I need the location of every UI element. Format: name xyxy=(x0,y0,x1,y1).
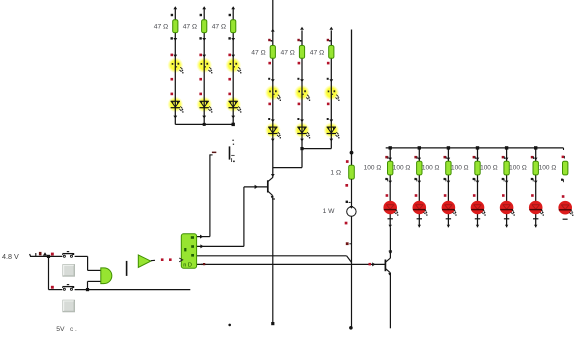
wire U1 pin1 (Q output 1) xyxy=(197,236,210,238)
current mark below lamp xyxy=(345,222,348,225)
wire U1 pin1 up to capacitor C1 xyxy=(210,154,213,236)
wire column 5 vertical xyxy=(506,148,508,227)
current mark above LED D14 xyxy=(415,194,418,197)
wire Q2 emitter down xyxy=(389,273,391,329)
current mark above LED D18 xyxy=(531,194,534,197)
LED D15 (red, lit) xyxy=(442,201,456,215)
current arrow on Q1 collector wire xyxy=(271,174,275,177)
current mark below R7 xyxy=(268,62,271,65)
wire branch 2 vertical xyxy=(203,7,205,124)
current arrow top of branch 9 xyxy=(329,27,333,30)
junction node column 2 on bus xyxy=(418,146,421,149)
svg-text:47 Ω: 47 Ω xyxy=(310,49,324,56)
current arrow at top of branch 3 xyxy=(231,6,235,9)
LED D11 diode symbol xyxy=(297,127,306,133)
gate U2 (AND) xyxy=(101,268,112,284)
current mark below top, branch 1 xyxy=(171,14,173,16)
label R1 value 47 ohm xyxy=(154,24,168,31)
junction node battery split xyxy=(47,255,50,258)
LED D17 emission arrows xyxy=(511,210,515,216)
clock marker vertical bar xyxy=(126,261,128,276)
current mark lower on lamp wire xyxy=(346,242,351,245)
IC U1 (counter) body xyxy=(181,234,196,268)
wire bottom rail riser to gate U2 input B xyxy=(88,281,101,289)
label R15 value 100 ohm xyxy=(539,165,557,172)
LED D15 emission arrows xyxy=(453,210,457,216)
wire column 2 vertical xyxy=(418,148,420,227)
wire Q1 base xyxy=(244,186,267,188)
LED D8 glow (yellow, lit) xyxy=(294,85,310,101)
current mark above LED D17 xyxy=(502,194,505,197)
LED D12 emission arrows xyxy=(336,132,340,138)
current mark below R14 xyxy=(531,178,538,184)
LED D6 emission arrows xyxy=(237,106,241,112)
svg-text:47 Ω: 47 Ω xyxy=(251,49,265,56)
transistor Q2 emitter diagonal with arrow xyxy=(386,269,392,276)
wire SW1 to gate U2 input A xyxy=(75,256,101,270)
current arrow at top of branch 2 xyxy=(202,6,206,9)
wire column 6 vertical xyxy=(535,148,537,227)
LED D5 emission arrows xyxy=(208,106,212,112)
current mark above LED D3 xyxy=(228,54,235,58)
current mark below top, branch 9 xyxy=(327,39,331,42)
current arrow at bottom of column 5 xyxy=(505,225,508,228)
current arrow at bottom of column 3 xyxy=(447,225,450,228)
gate U3 buffer triangle xyxy=(138,255,151,268)
current mark below bus col 4 xyxy=(473,156,480,161)
LED D11 emission arrows xyxy=(306,132,310,138)
wire from junction down then left to branch 7 xyxy=(273,149,302,168)
wire joining branches 8 and 9 xyxy=(302,137,331,149)
current arrow above LED D9 xyxy=(327,78,334,82)
current mark below R8 xyxy=(298,62,301,65)
wire U1 pin2 to Q1 base riser xyxy=(197,187,244,247)
current arrow at top of branch 1 xyxy=(173,6,177,9)
svg-text:47 Ω: 47 Ω xyxy=(212,24,226,31)
node dot at bottom of Q1 emitter wire xyxy=(271,322,274,325)
capacitor C1 small marks xyxy=(231,140,235,163)
current mark below R9 xyxy=(385,178,392,184)
LED D2 emission arrows xyxy=(208,67,212,73)
wire top bus of LED array xyxy=(386,148,564,150)
LED D19 cathode tick xyxy=(563,218,568,220)
LED D16 cathode tick xyxy=(475,218,480,220)
current arrow on pin2 wire xyxy=(200,244,203,248)
switch SW2 button pad xyxy=(63,300,75,312)
current tick on Q2 collector xyxy=(389,251,393,255)
current mark above LED D2 xyxy=(199,54,206,58)
wire battery negative branch down xyxy=(48,256,50,289)
svg-text:100 Ω: 100 Ω xyxy=(539,165,557,172)
node end dot group1 bus xyxy=(232,123,235,126)
current mark above LED D4 xyxy=(171,93,174,96)
LED D7 symbol specks xyxy=(269,90,277,95)
wire branch 7 vertical xyxy=(272,0,274,137)
label R8 value 47 ohm xyxy=(281,49,295,56)
junction node column 6 on bus xyxy=(534,146,537,149)
svg-text:5V: 5V xyxy=(56,326,65,333)
current arrow above LED D10 xyxy=(268,118,275,122)
LED D16 (red, lit) xyxy=(471,201,485,215)
wire from battery positive xyxy=(30,254,63,256)
LED D16 emission arrows xyxy=(482,210,486,216)
current arrow at bottom of column 1 xyxy=(389,225,392,228)
LED D10 diode symbol xyxy=(268,127,277,133)
junction node column 4 on bus xyxy=(476,146,479,149)
current mark below LED D8 xyxy=(298,103,301,106)
current arrow above LED D7 xyxy=(268,78,275,82)
current arrow above LED D12 xyxy=(327,118,334,122)
current mark below R12 xyxy=(473,178,480,184)
current dots to U1 clock xyxy=(161,258,172,261)
current mark below LED D1 xyxy=(171,78,174,81)
junction dot on lamp branch xyxy=(350,151,354,155)
current arrow below LED D5 xyxy=(202,116,206,119)
wire branch 8 vertical xyxy=(301,30,303,136)
current mark on bottom rail xyxy=(51,286,54,289)
resistor R15 100 ohm (unwired column) xyxy=(563,161,568,175)
wire below lamp xyxy=(351,216,353,327)
IC U1 pin labels xyxy=(183,236,194,268)
LED D14 cathode tick xyxy=(417,218,422,220)
svg-text:47 Ω: 47 Ω xyxy=(281,49,295,56)
wire branch 9 vertical xyxy=(330,30,332,136)
LED D17 (red, lit) xyxy=(500,201,514,215)
LED D19 emission arrows xyxy=(569,210,573,216)
resistor R9 47 ohm xyxy=(329,46,334,59)
LED D9 emission arrows xyxy=(336,95,340,101)
transistor Q1 emitter diagonal with arrow xyxy=(268,191,274,198)
transistor Q2 (NPN) base bar xyxy=(384,260,386,272)
svg-text:100 Ω: 100 Ω xyxy=(364,165,382,172)
LED D8 symbol specks xyxy=(298,90,306,95)
LED D1 symbol specks xyxy=(172,63,180,68)
LED D4 diode symbol xyxy=(171,101,180,107)
current arrow at bottom of column 6 xyxy=(534,225,537,228)
junction node column 5 on bus xyxy=(505,146,508,149)
LED D9 symbol specks xyxy=(328,90,336,95)
current mark below bus col 3 xyxy=(444,156,451,161)
current mark below R2 xyxy=(199,37,206,41)
wire branch 1 vertical xyxy=(174,7,176,124)
LED D7 emission arrows xyxy=(277,95,281,101)
LED D3 emission arrows xyxy=(237,67,241,73)
resistor R10 100 ohm xyxy=(417,161,422,175)
current arrow below LED D10 xyxy=(271,139,275,142)
current arrow on Q1 base wire xyxy=(255,185,258,189)
resistor R13 100 ohm xyxy=(504,161,509,175)
current mark above R_1ohm xyxy=(346,160,349,163)
current arrow below LED D6 xyxy=(231,116,235,119)
label R2 value 47 ohm xyxy=(183,24,197,31)
current arrow above LED D11 xyxy=(297,118,304,122)
transistor Q1 collector diagonal xyxy=(268,177,273,181)
svg-text:47 Ω: 47 Ω xyxy=(154,24,168,31)
LED D14 emission arrows xyxy=(424,210,428,216)
current mark below R8 xyxy=(345,184,348,187)
label 1 ohm xyxy=(330,170,341,177)
current mark near U1 pin4 xyxy=(201,263,206,265)
transistor Q1 (NPN) base bar xyxy=(267,180,269,192)
lamp L1 circle xyxy=(347,206,356,216)
current mark below R11 xyxy=(444,178,451,184)
lone node dot below C1 column xyxy=(228,324,231,327)
wire branch7 down to Q1 collector xyxy=(272,137,274,178)
LED D10 emission arrows xyxy=(277,132,281,138)
resistor R11 100 ohm xyxy=(446,161,451,175)
LED D7 glow (yellow, lit) xyxy=(265,85,281,101)
capacitor C1 negative plate / minus sign xyxy=(212,152,216,154)
IC U1 clock input chevron xyxy=(179,258,182,262)
current arrow top of branch 8 xyxy=(300,27,304,30)
LED D14 (red, lit) xyxy=(413,201,427,215)
transistor Q2 collector diagonal xyxy=(386,258,391,262)
node dot at bottom of lamp wire xyxy=(349,326,353,330)
resistor R7 47 ohm xyxy=(270,46,275,59)
current mark below top, branch 3 xyxy=(229,14,231,16)
svg-text:100 Ω: 100 Ω xyxy=(451,165,469,172)
LED D3 symbol specks xyxy=(230,63,237,68)
junction node column 3 on bus xyxy=(447,146,450,149)
current arrow on battery wire xyxy=(43,252,47,255)
wire column 3 vertical xyxy=(447,148,449,227)
svg-text:100 Ω: 100 Ω xyxy=(509,165,527,172)
resistor R8 47 ohm xyxy=(299,46,304,59)
LED D12 diode symbol xyxy=(327,127,336,133)
label R9 value 47 ohm xyxy=(310,49,324,56)
LED D18 cathode tick xyxy=(533,218,538,220)
LED D17 cathode tick xyxy=(504,218,509,220)
current mark above LED D15 xyxy=(444,194,447,197)
LED D1 glow (yellow, lit) xyxy=(167,57,183,73)
current mark below R3 xyxy=(228,37,235,41)
label R13 value 100 ohm xyxy=(480,165,498,172)
current mark below LED D3 xyxy=(228,78,231,81)
LED D6 diode symbol xyxy=(229,101,238,107)
current mark top of unwired column xyxy=(562,156,565,159)
current arrow at bottom of column 4 xyxy=(476,225,479,228)
label R14 value 100 ohm xyxy=(509,165,527,172)
LED D1 emission arrows xyxy=(180,67,184,73)
wire column 4 vertical xyxy=(477,148,479,227)
label R3 value 47 ohm xyxy=(212,24,226,31)
wire Q2 collector up to LED column 1 xyxy=(389,227,391,258)
current arrow above LED D8 xyxy=(297,78,304,82)
wire long vertical from top to 1-ohm branch xyxy=(351,30,353,166)
current tick on Q1 emitter xyxy=(272,198,275,200)
wire group1 bottom bus xyxy=(175,123,233,125)
current mark below R15 xyxy=(561,179,563,183)
current mark above LED D5 xyxy=(199,93,202,96)
current mark below bus col 6 xyxy=(531,156,538,161)
current mark below top, branch 7 xyxy=(268,39,272,42)
label R10 value 100 ohm xyxy=(393,165,411,172)
LED D11 glow (yellow, lit) xyxy=(294,122,310,138)
LED D2 glow (yellow, lit) xyxy=(196,57,212,73)
LED D9 glow (yellow, lit) xyxy=(323,85,339,101)
current mark below LED D9 xyxy=(327,103,330,106)
LED D13 cathode tick xyxy=(388,218,393,220)
wire U1 pin4 to Q2 base xyxy=(197,263,385,265)
wire bottom rail to under IC xyxy=(49,289,191,291)
current mark above LED D6 xyxy=(228,93,231,96)
label R9 value 100 ohm xyxy=(364,165,382,172)
label 5V Clk xyxy=(56,326,77,333)
svg-text:n D: n D xyxy=(183,262,192,268)
resistor R14 100 ohm xyxy=(533,161,538,175)
current arrow on pin1 wire xyxy=(200,235,203,239)
current arrow below LED D12 xyxy=(330,139,334,142)
current mark below R1 xyxy=(171,37,178,41)
wire Q1 emitter down to bottom node xyxy=(272,196,274,324)
current mark below bus col 5 xyxy=(502,156,509,161)
resistor R3 47 ohm xyxy=(231,20,236,33)
LED D13 emission arrows xyxy=(394,210,398,216)
switch SW1 (push-to-make) xyxy=(63,252,75,258)
wire below R8 xyxy=(351,179,353,207)
svg-text:4.8 V: 4.8 V xyxy=(2,252,19,261)
resistor R9 100 ohm xyxy=(388,161,393,175)
capacitor C1 positive plate xyxy=(229,146,231,159)
resistor R8 1 ohm xyxy=(349,165,355,179)
battery B1 label 4.8 V xyxy=(2,252,19,261)
current mark above LED D16 xyxy=(473,194,476,197)
svg-text:47 Ω: 47 Ω xyxy=(183,24,197,31)
resistor R1 47 ohm xyxy=(173,20,178,33)
label R12 value 100 ohm xyxy=(451,165,469,172)
current mark below LED D7 xyxy=(268,103,271,106)
LED D15 cathode tick xyxy=(446,218,451,220)
current mark below R13 xyxy=(502,178,509,184)
current arrow below LED D4 xyxy=(173,116,177,119)
LED D10 glow (yellow, lit) xyxy=(265,122,281,138)
LED D5 glow (yellow, lit) xyxy=(196,97,212,113)
wire U1 pin3 to lamp branch with elbow xyxy=(197,256,352,263)
current arrow top of branch 7 xyxy=(271,29,275,32)
LED D12 glow (yellow, lit) xyxy=(323,122,339,138)
label 1 W xyxy=(323,208,336,215)
svg-text:c .: c . xyxy=(70,326,77,333)
LED D18 emission arrows xyxy=(540,210,544,216)
svg-text:100 Ω: 100 Ω xyxy=(480,165,498,172)
current mark below LED D2 xyxy=(199,78,202,81)
svg-text:100 Ω: 100 Ω xyxy=(422,165,440,172)
label R11 value 100 ohm xyxy=(422,165,440,172)
current mark after junction xyxy=(51,253,54,256)
current mark below bus col 2 xyxy=(414,156,421,161)
junction node column 1 on bus xyxy=(389,146,392,149)
current mark below top, branch 2 xyxy=(200,14,202,16)
label R7 value 47 ohm xyxy=(251,49,265,56)
svg-text:100 Ω: 100 Ω xyxy=(393,165,411,172)
switch SW2 (push-to-make) xyxy=(63,285,75,291)
current mark below bus col 1 xyxy=(385,156,392,161)
resistor R2 47 ohm xyxy=(202,20,207,33)
current arrow below LED D11 xyxy=(300,139,304,142)
junction node on bottom rail xyxy=(86,288,89,291)
wire column 1 vertical xyxy=(389,148,391,227)
resistor R12 100 ohm xyxy=(475,161,480,175)
current mark below R9 xyxy=(327,62,330,65)
LED D19 (red, lit, unwired) xyxy=(558,201,572,215)
current mark below top, branch 8 xyxy=(297,39,301,42)
wire branch 3 vertical xyxy=(232,7,234,124)
current mark below R10 xyxy=(414,178,421,184)
current marks on pin4 wire near Q2 xyxy=(369,262,376,266)
current mark above LED D13 xyxy=(386,194,389,197)
current arrow at bottom of column 2 xyxy=(418,225,421,228)
current mark above LED D19 xyxy=(562,195,565,198)
current tick on battery wire xyxy=(35,253,37,256)
junction node group1 bus xyxy=(203,123,206,126)
LED D6 glow (yellow, lit) xyxy=(225,97,241,113)
current mark above lamp xyxy=(346,201,351,203)
current mark above LED D1 xyxy=(171,54,178,58)
LED D4 emission arrows xyxy=(180,106,184,112)
LED D8 emission arrows xyxy=(306,95,310,101)
LED D13 (red, lit) xyxy=(383,201,397,215)
wire U3 output stub xyxy=(151,259,155,261)
svg-text:1 Ω: 1 Ω xyxy=(330,170,341,177)
switch SW1 button pad xyxy=(63,265,75,277)
LED D3 glow (yellow, lit) xyxy=(225,57,241,73)
current mark dark red on battery wire xyxy=(39,252,42,255)
LED D5 diode symbol xyxy=(200,101,209,107)
LED D4 glow (yellow, lit) xyxy=(167,97,183,113)
LED D18 (red, lit) xyxy=(529,201,543,215)
junction node branch8/9 xyxy=(300,147,303,150)
LED D2 symbol specks xyxy=(201,63,208,68)
svg-text:1 W: 1 W xyxy=(323,208,336,215)
